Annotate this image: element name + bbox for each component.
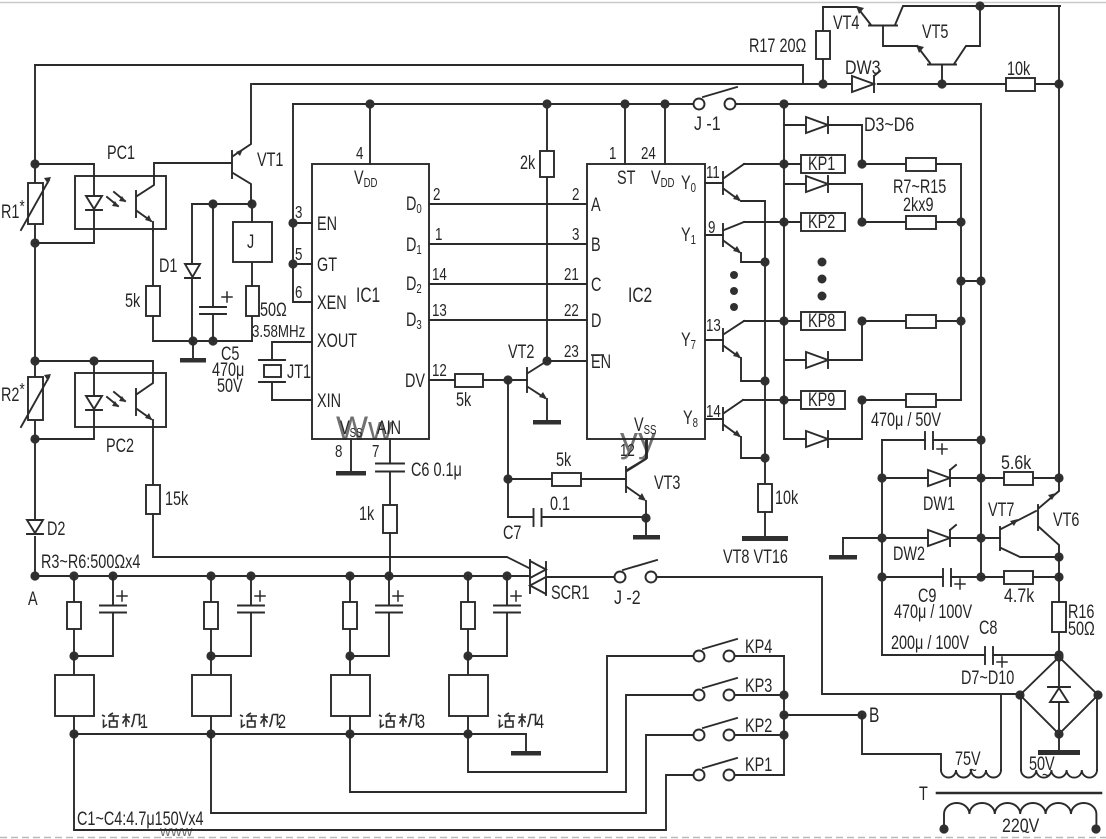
wire PC1 emitter to 5k — [152, 231, 154, 286]
node B — [857, 710, 866, 719]
svg-text:XEN: XEN — [317, 291, 347, 314]
key switch KP3 — [694, 678, 785, 701]
svg-text:4: 4 — [536, 710, 544, 733]
relay coil box KP2 — [801, 213, 845, 231]
relay contact J-2 — [615, 560, 658, 583]
optocoupler PC2 light arrows — [107, 392, 126, 407]
node C5 top — [208, 199, 217, 208]
node KP9 row / diode bus — [779, 395, 788, 404]
page border bottom — [0, 837, 1106, 839]
svg-text:200μ / 100V: 200μ / 100V — [891, 631, 970, 654]
ground (VT3) — [633, 518, 660, 540]
page border top — [0, 2, 1106, 4]
svg-text:1: 1 — [435, 225, 443, 244]
capacitor C9 — [882, 569, 981, 589]
wire crystal to IC1 XIN pin — [272, 383, 312, 400]
relay coil box KP8 — [801, 312, 845, 330]
key switch KP1 — [694, 758, 785, 781]
svg-text:15k: 15k — [165, 487, 189, 510]
node C5 bottom bus — [208, 336, 217, 345]
svg-text:KP2: KP2 — [745, 714, 772, 737]
node diode bus rail — [779, 99, 788, 108]
resistor 50ohm — [246, 286, 259, 316]
wire PC2 emitter to 15k — [152, 427, 154, 485]
svg-text:IC2: IC2 — [628, 283, 652, 307]
wire PC1 collector to VT1 base — [154, 163, 231, 176]
wire IC1 VDD pin 4 — [369, 104, 371, 164]
relay contact J-1 — [694, 87, 738, 110]
svg-text:2: 2 — [278, 710, 286, 733]
node DW2 left — [877, 533, 886, 542]
node R5/C3 junction — [345, 651, 354, 660]
transformer T winding 220V — [944, 803, 1096, 826]
wire emitter bus x765 — [764, 202, 766, 484]
node 5.6k right — [1054, 473, 1063, 482]
node R1 bottom — [30, 238, 39, 247]
node PC2 LED anode — [89, 356, 98, 365]
wire IC1 D3 line to IC2 D — [429, 319, 587, 321]
transistor VT4 (PNP) — [823, 6, 1060, 46]
node bridge top — [1054, 652, 1063, 661]
wire IC2 ST pin 1 — [624, 104, 626, 164]
node phone4 bottom — [463, 729, 472, 738]
wire IC2 VDD pin 24 — [664, 104, 666, 164]
relay coil J box — [233, 222, 272, 262]
svg-text:50Ω: 50Ω — [260, 298, 287, 321]
phone box 4 — [449, 656, 488, 734]
svg-text:7: 7 — [372, 442, 379, 461]
svg-text:22: 22 — [564, 301, 579, 320]
svg-text:KP1: KP1 — [745, 753, 772, 776]
svg-text:GT: GT — [317, 253, 337, 276]
svg-text:21: 21 — [564, 265, 579, 284]
svg-text:5k: 5k — [456, 388, 472, 411]
svg-text:2: 2 — [572, 185, 579, 204]
svg-text:2: 2 — [433, 185, 440, 204]
resistor R7 row — [862, 158, 961, 171]
svg-text:DV: DV — [405, 369, 426, 392]
svg-text:SCR1: SCR1 — [551, 581, 589, 604]
svg-text:T: T — [919, 782, 928, 805]
relay coil box KP9 — [801, 391, 845, 409]
svg-text:50V: 50V — [217, 374, 243, 397]
node IC2 ST rail — [620, 99, 629, 108]
svg-text:11: 11 — [706, 163, 720, 182]
transistor VT1 (PNP) — [232, 84, 251, 204]
capacitor C2 — [211, 576, 265, 656]
node top rail VT5 collector — [975, 1, 984, 10]
node KP1 row / diode bus — [779, 159, 788, 168]
resistor R15 row — [862, 394, 961, 407]
node R6 top — [463, 571, 472, 580]
node R8 right — [956, 217, 965, 226]
svg-text:D3~D6: D3~D6 — [864, 114, 914, 136]
node C1 top — [108, 571, 117, 580]
transistor VT3 (NPN) — [626, 439, 646, 518]
node IC1 VDD rail — [365, 99, 374, 108]
resistor 2k column — [540, 104, 554, 361]
svg-text:J -1: J -1 — [694, 113, 721, 135]
resistor R5 column — [343, 576, 357, 656]
diode D2 — [26, 519, 44, 536]
resistor 4.7k — [981, 571, 1059, 584]
svg-text:IC1: IC1 — [356, 283, 380, 307]
node 75V/50V/bridge-left — [1015, 690, 1024, 699]
node bridge right — [1093, 690, 1102, 699]
phone box 3 — [331, 656, 370, 734]
svg-text:JT1: JT1 — [287, 360, 311, 383]
capacitor C4 — [468, 576, 521, 656]
transistor VT7 (NPN) — [1000, 511, 1059, 557]
optocoupler PC2 LED — [86, 396, 102, 410]
phone box 2 — [192, 656, 231, 734]
ground (phone bus) — [511, 734, 541, 756]
wire IC1 D1 line to IC2 B — [429, 243, 587, 245]
svg-text:5k: 5k — [556, 448, 572, 471]
wire IC1 DV pin 12 — [429, 379, 455, 381]
node VT3 emitter / C7 — [641, 513, 650, 522]
wire IC1 XOUT pin to crystal — [272, 342, 312, 359]
wire junction to 5k (VT3 base) — [508, 478, 552, 480]
wire supply vertical x981 — [980, 104, 982, 577]
svg-text:3: 3 — [572, 225, 580, 244]
resistor 15k — [146, 485, 160, 514]
svg-text:EN: EN — [591, 350, 611, 373]
node 2k rail — [542, 99, 551, 108]
wire IC1 Vss pin 8 — [350, 439, 352, 471]
wire diode bus x784 — [783, 104, 785, 439]
capacitor C5 — [200, 204, 232, 341]
optocoupler PC2 box — [75, 373, 166, 427]
transformer T core — [937, 792, 1101, 795]
resistor 5k (DV) — [455, 374, 483, 387]
node DW1 right — [976, 473, 985, 482]
node VT6/VT7 emitter join — [1054, 552, 1063, 561]
key switch KP4 — [694, 639, 785, 662]
resistor R17 — [816, 7, 830, 84]
wire IC1 D0 line to IC2 A — [429, 203, 587, 205]
svg-text:12: 12 — [620, 441, 635, 460]
wire KP8 row left — [744, 320, 801, 322]
svg-text:12: 12 — [432, 361, 447, 380]
resistor R3 column — [67, 576, 81, 656]
svg-text:J -2: J -2 — [614, 587, 641, 609]
wire 1k to A bus — [389, 533, 391, 576]
ground (C5 bus) — [180, 341, 206, 363]
capacitor C3 — [350, 576, 403, 656]
svg-text:10k: 10k — [775, 486, 799, 509]
svg-text:4: 4 — [356, 144, 364, 163]
node DW2 right — [976, 533, 985, 542]
svg-text:PC2: PC2 — [106, 434, 134, 457]
svg-text:PC1: PC1 — [107, 141, 135, 164]
transistor VT6 (NPN darlington) — [1038, 478, 1059, 557]
svg-text:6: 6 — [295, 283, 303, 302]
resistor 10k (emitter bus) — [758, 484, 772, 512]
resistor R14 row — [862, 315, 961, 328]
svg-text:XIN: XIN — [317, 389, 341, 412]
zener DW2 — [843, 525, 1000, 546]
node Y1 emitter — [760, 257, 769, 266]
svg-text:2kx9: 2kx9 — [903, 193, 933, 216]
diode D3 (KP1 bypass) — [784, 117, 862, 164]
ground (IC1 Vss) — [336, 471, 366, 476]
svg-text:C1~C4:4.7μ150Vx4: C1~C4:4.7μ150Vx4 — [77, 807, 204, 830]
wire VT1 emitter rail y84 — [253, 83, 1059, 85]
node KP2 join — [779, 730, 788, 739]
wire 5k to VT2 base — [483, 379, 527, 381]
capacitor 470u/50V — [882, 432, 981, 454]
node C2 top — [246, 571, 255, 580]
svg-text:KP3: KP3 — [745, 674, 772, 697]
svg-text:3: 3 — [417, 710, 425, 733]
svg-text:~: ~ — [969, 761, 977, 780]
svg-text:EN: EN — [317, 212, 337, 235]
node C9 right — [976, 572, 985, 581]
wire C6 to 1k — [389, 472, 391, 505]
svg-text:0.1: 0.1 — [550, 492, 570, 515]
ground (emitter bus) — [742, 512, 788, 541]
optocoupler PC2 phototransistor — [136, 373, 153, 427]
wire left column x35 — [34, 65, 36, 576]
svg-text:14: 14 — [432, 265, 447, 284]
wire KP2 row left — [744, 221, 801, 223]
svg-text:D1: D1 — [159, 254, 177, 277]
resistor 5.6k — [981, 472, 1059, 485]
svg-text:KP2: KP2 — [808, 210, 835, 233]
svg-text:C6 0.1μ: C6 0.1μ — [411, 458, 462, 481]
svg-text:DW2: DW2 — [893, 542, 925, 565]
wire A bus y576 — [35, 575, 528, 577]
wire D1/C5 top row y204 — [192, 203, 252, 205]
capacitor C1 — [74, 576, 127, 656]
wire SCR1 to J-2 — [546, 576, 614, 578]
resistor R2 (variable) — [21, 374, 51, 427]
svg-text:VT5: VT5 — [922, 20, 948, 43]
thyristor SCR1 — [530, 560, 546, 595]
svg-text:50Ω: 50Ω — [1068, 617, 1095, 640]
node KP8 row / diode bus — [779, 316, 788, 325]
svg-text:C8: C8 — [979, 616, 997, 639]
capacitor C7 — [508, 509, 646, 526]
diode D4 (KP2 bypass) — [784, 176, 862, 222]
resistor 10k (top) — [1006, 78, 1035, 91]
wire resistor common x961 — [960, 164, 962, 400]
svg-text:VT2: VT2 — [508, 340, 534, 363]
node C4 top — [502, 571, 511, 580]
svg-text:C7: C7 — [503, 521, 521, 544]
node R17 bottom — [818, 79, 827, 88]
wire bus to node B — [784, 714, 862, 716]
wire top-left rail y65 from R1 column to right descender — [35, 65, 803, 84]
node 220V right terminal — [1091, 824, 1100, 833]
wire PC1 LED cathode row y243 — [35, 211, 94, 243]
transistor Y8 driver (VT16) — [705, 400, 765, 458]
svg-text:DW1: DW1 — [923, 492, 955, 515]
svg-text:8: 8 — [335, 442, 343, 461]
resistor 1k — [383, 505, 397, 533]
node A — [30, 571, 39, 580]
resistor 5k (PC1 emitter) — [146, 286, 160, 316]
rectifier bridge D7~D10 — [1020, 657, 1098, 734]
decoder IC2 box — [587, 164, 705, 439]
node EN — [288, 218, 297, 227]
node KP2 row / diode bus — [779, 217, 788, 226]
wire B to transformer 75V left — [862, 715, 941, 770]
wire J top to node — [251, 204, 253, 222]
svg-text:470μ / 100V: 470μ / 100V — [894, 600, 973, 623]
svg-text:9: 9 — [708, 218, 716, 237]
label phone1 (hua ji 1) — [102, 710, 148, 733]
capacitor C8 — [882, 647, 1059, 667]
optocoupler PC1 light arrows — [107, 192, 126, 207]
node R1 top — [30, 159, 39, 168]
crystal JT1 — [259, 360, 285, 382]
wire 50ohm bottom riser — [251, 316, 253, 341]
node R4 top — [206, 571, 215, 580]
node R2 bottom — [30, 434, 39, 443]
svg-text:VT1: VT1 — [257, 148, 283, 171]
svg-text:J: J — [247, 230, 254, 253]
key switch KP2 — [694, 718, 785, 741]
svg-text:5k: 5k — [125, 289, 141, 312]
wire 5k to ground bus y341 — [153, 316, 252, 341]
resistor R1 (variable) — [21, 177, 51, 230]
wire VDD rail y104 — [293, 103, 693, 105]
watermark blobs — [159, 410, 656, 839]
svg-text:~: ~ — [1042, 766, 1050, 785]
wire phone4 to KP4 rail — [468, 656, 693, 772]
wire phone bottom bus y734 — [74, 733, 526, 735]
node VT2 base junction — [503, 375, 512, 384]
resistor 5k (VT3 base) — [552, 473, 581, 486]
svg-text:KP9: KP9 — [808, 388, 835, 411]
svg-text:220V: 220V — [1002, 815, 1039, 837]
node C3 top — [384, 571, 393, 580]
node IC2 VDD rail — [660, 99, 669, 108]
wire VDD rail y104 right of J-1 — [736, 103, 981, 105]
diode D6 (KP9 bypass) — [784, 400, 862, 447]
node PC2 top row — [30, 356, 39, 365]
wire VT2 base junction down to C7 node — [507, 380, 509, 517]
svg-text:R3~R6:500Ωx4: R3~R6:500Ωx4 — [41, 550, 141, 573]
node R3 top — [69, 571, 78, 580]
node Y8 emitter — [760, 453, 769, 462]
wire left power column x882 — [881, 440, 883, 655]
svg-text:3: 3 — [295, 203, 303, 222]
svg-text:~: ~ — [1022, 823, 1030, 839]
wire stub to supply vertical — [961, 280, 981, 282]
node 4.7k right — [1054, 572, 1063, 581]
transistor Y1 driver — [705, 222, 765, 262]
wire right rail x1059 — [1058, 6, 1060, 478]
optocoupler PC1 LED — [86, 196, 102, 210]
IC2 EN-bar — [591, 350, 611, 373]
zener DW1 — [882, 465, 981, 486]
node KP3 join — [779, 690, 788, 699]
wire phone1 to KP1 rail — [74, 734, 693, 830]
wire J-2 to bridge left vertex — [657, 577, 1020, 694]
resistor R16 — [1052, 557, 1066, 655]
resistor R6 column — [461, 576, 475, 656]
diode D5 (KP8 bypass) — [784, 321, 862, 368]
svg-text:14: 14 — [706, 402, 721, 421]
node stub left — [956, 276, 965, 285]
node R4/C2 junction — [206, 651, 215, 660]
svg-text:5.6k: 5.6k — [1001, 452, 1031, 474]
svg-text:VT3: VT3 — [654, 471, 680, 494]
wire IC1 EN/GT/XEN chain x293 — [293, 104, 312, 302]
wire IC1 EN pin 3 stub — [293, 222, 312, 224]
svg-text:VT8 VT16: VT8 VT16 — [723, 545, 788, 568]
node R6/C4 junction — [463, 651, 472, 660]
svg-text:3.58MHz: 3.58MHz — [252, 322, 305, 341]
svg-text:C: C — [591, 273, 601, 296]
svg-text:ST: ST — [617, 166, 636, 189]
ellipsis between KP2 and KP8 — [818, 258, 827, 301]
svg-text:AIN: AIN — [377, 416, 401, 439]
svg-text:2k: 2k — [520, 151, 536, 174]
node B stub join — [779, 710, 788, 719]
transistor Y0 driver (VT8) — [705, 164, 765, 201]
svg-text:13: 13 — [432, 301, 447, 320]
transistor Y7 driver — [705, 321, 765, 381]
transistor VT5 (PNP) — [916, 6, 980, 84]
svg-text:A: A — [591, 193, 601, 216]
svg-text:XOUT: XOUT — [317, 329, 358, 352]
svg-text:B: B — [869, 703, 879, 727]
label phone3 (hua ji 3) — [379, 710, 425, 733]
op-amp IC1 box — [312, 164, 429, 439]
svg-text:KP8: KP8 — [808, 309, 835, 332]
transistor VT2 (NPN) — [527, 361, 547, 420]
svg-text:B: B — [591, 233, 601, 256]
wire 50ohm to J box — [251, 262, 253, 286]
node phone1 bottom — [69, 729, 78, 738]
wire 50V left lead — [1020, 695, 1022, 770]
wire 15k to SCR gate line y557 — [153, 514, 529, 568]
node phone2 bottom — [206, 729, 215, 738]
ellipsis between Y1 and Y7 — [730, 271, 738, 311]
capacitor C6 — [376, 464, 404, 472]
node R14 right — [956, 316, 965, 325]
wire IC1 GT pin 5 stub — [293, 263, 312, 265]
node D1 top bus — [188, 336, 197, 345]
node 10k right / right rail — [1054, 79, 1063, 88]
transformer T winding 50V — [1021, 770, 1097, 778]
svg-text:R17 20Ω: R17 20Ω — [749, 34, 806, 57]
svg-text:D7~D10: D7~D10 — [961, 666, 1014, 689]
wire 5k to VT3 base — [581, 478, 625, 480]
svg-text:10k: 10k — [1007, 57, 1031, 80]
wire IC1 D2 line to IC2 C — [429, 283, 587, 285]
resistor R8 row — [862, 216, 961, 229]
label phone4 (hua ji 4) — [498, 710, 544, 733]
phone box 1 — [55, 656, 94, 734]
node VT5 emitter on DW3 row — [937, 79, 946, 88]
node GT — [288, 259, 297, 268]
optocoupler PC1 box — [75, 176, 166, 229]
svg-text:13: 13 — [706, 316, 721, 335]
node R5 top — [345, 571, 354, 580]
diode D1 — [184, 204, 201, 341]
node phone3 bottom — [345, 729, 354, 738]
wire PC2 top row y361 — [35, 361, 153, 373]
node R3/C1 junction — [69, 651, 78, 660]
svg-text:VT6: VT6 — [1053, 508, 1079, 531]
node R16 bottom / C8 — [1054, 650, 1063, 659]
node VT1 collector / J top — [247, 199, 256, 208]
